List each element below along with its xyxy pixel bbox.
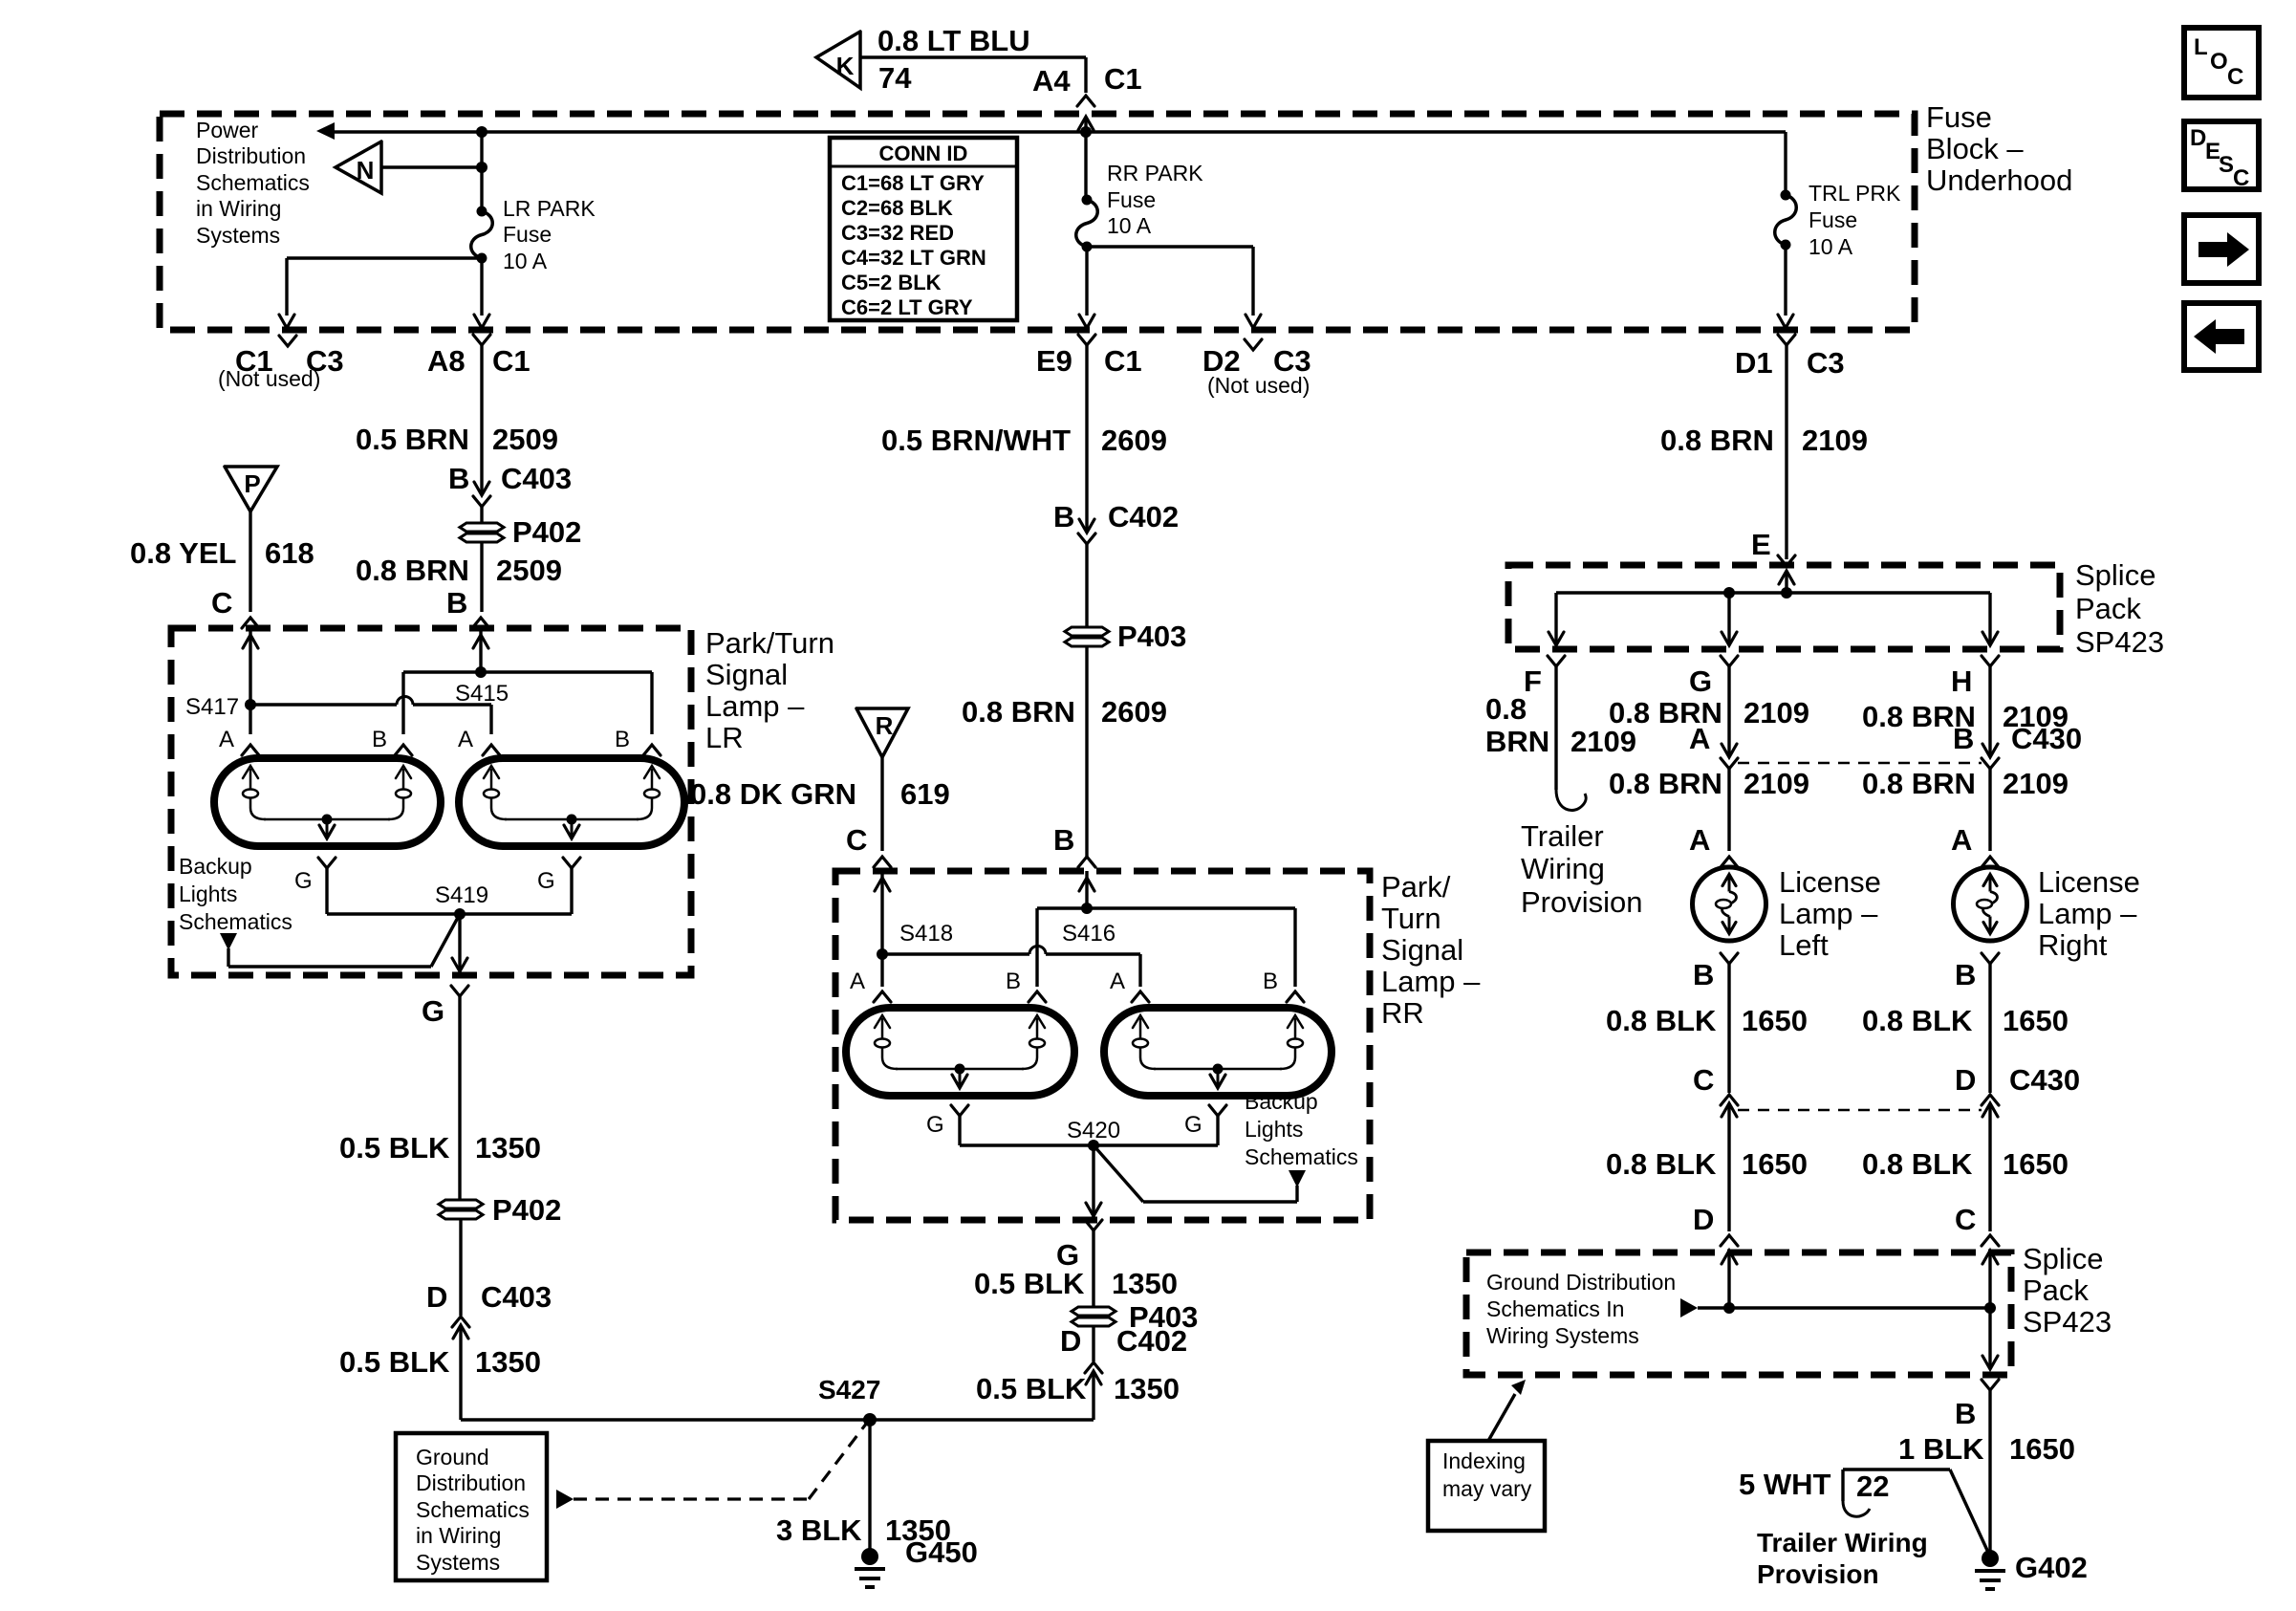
- svg-text:B: B: [1053, 823, 1074, 857]
- wire RR lamp grounds join: [960, 1143, 1218, 1146]
- svg-text:A: A: [219, 727, 234, 752]
- wire 0.8 BRN 2109: [1660, 345, 1868, 559]
- svg-text:C: C: [2227, 64, 2243, 90]
- svg-text:CONN ID: CONN ID: [879, 142, 968, 165]
- wire 0.8 BLK 1650 left: [1606, 964, 1808, 1093]
- svg-text:G: G: [1689, 664, 1712, 698]
- wire P feed into box: [243, 628, 258, 705]
- icon LOC: [2184, 28, 2259, 98]
- connector into LR lamp A: [242, 618, 259, 628]
- wire S420 ground exit: [1086, 1145, 1101, 1220]
- connector F below splice: [1524, 656, 1565, 698]
- wire RR fuse branch to D2 stub: [1087, 247, 1261, 328]
- wire 0.5 BRN 2509: [356, 345, 558, 495]
- label E: [1751, 528, 1771, 561]
- terminal B lamp2: [615, 727, 661, 755]
- svg-text:C1=68 LT GRY: C1=68 LT GRY: [841, 171, 985, 195]
- junction dot rail / A4 input: [1080, 126, 1092, 138]
- label A license right: [1951, 823, 1972, 857]
- power rail: [333, 130, 1786, 133]
- label D: [1693, 1203, 1714, 1236]
- svg-text:in Wiring: in Wiring: [196, 196, 281, 221]
- wire A4 to fuse block: [1077, 57, 1094, 106]
- svg-text:0.5 BLK: 0.5 BLK: [339, 1131, 450, 1165]
- pointer into ground splice: [1680, 1298, 1990, 1317]
- connector into RR lamp C: [874, 857, 891, 867]
- svg-text:C2=68 BLK: C2=68 BLK: [841, 196, 953, 220]
- svg-text:2609: 2609: [1101, 424, 1167, 457]
- svg-text:C430: C430: [2011, 722, 2082, 755]
- svg-text:A: A: [1689, 722, 1710, 755]
- wire P403 to C402: [1060, 1324, 1187, 1361]
- svg-text:G: G: [294, 868, 313, 894]
- lamp RR outer bulb: [846, 1008, 1074, 1096]
- svg-text:Ground: Ground: [416, 1445, 489, 1469]
- label License Lamp - Right: [2038, 865, 2140, 962]
- wire P402 to C403: [426, 1220, 552, 1316]
- svg-text:0.8 YEL: 0.8 YEL: [130, 536, 236, 570]
- svg-text:R: R: [876, 711, 894, 740]
- svg-text:1350: 1350: [475, 1131, 541, 1165]
- label Park/Turn Signal Lamp - RR: [1381, 870, 1481, 1030]
- svg-text:Provision: Provision: [1757, 1559, 1879, 1589]
- label Trailer Wiring Provision bottom: [1757, 1528, 1928, 1589]
- CONN ID table: [830, 138, 1017, 320]
- label Ground Distribution Schematics In Wiring Systems: [1486, 1270, 1676, 1348]
- svg-text:Right: Right: [2038, 928, 2108, 962]
- connector G below RR box: [1056, 1220, 1102, 1272]
- svg-text:C3=32 RED: C3=32 RED: [841, 221, 954, 245]
- inline connector P402: [460, 515, 581, 549]
- wire F trailer provision stub 0.8 BRN 2109: [1485, 666, 1636, 810]
- svg-text:618: 618: [265, 536, 314, 570]
- svg-text:Lamp –: Lamp –: [705, 689, 805, 723]
- svg-text:3 BLK: 3 BLK: [776, 1513, 862, 1547]
- svg-text:C: C: [211, 586, 232, 620]
- wire S419 ground exit: [452, 914, 467, 975]
- junction dot rail / LR fuse: [476, 126, 487, 138]
- wire TRL fuse to D1 output: [1778, 245, 1793, 328]
- indexing may vary box: [1428, 1441, 1545, 1531]
- svg-text:Wiring: Wiring: [1521, 852, 1605, 885]
- connector C1 pin E9: [1036, 335, 1142, 378]
- wire C403 to P402: [480, 507, 483, 522]
- wire N to LR fuse: [381, 162, 487, 173]
- connector arrow R turn feed: [856, 708, 908, 757]
- svg-text:0.8 BLK: 0.8 BLK: [1606, 1147, 1717, 1181]
- svg-text:B: B: [372, 727, 387, 752]
- icon DESC: [2184, 121, 2259, 191]
- svg-text:Schematics: Schematics: [196, 170, 310, 195]
- lamp RR inner bulb: [1104, 1008, 1332, 1096]
- svg-text:A: A: [458, 727, 473, 752]
- svg-text:B: B: [1955, 1397, 1976, 1430]
- connector G below splice: [1689, 656, 1738, 698]
- svg-text:Block –: Block –: [1926, 132, 2024, 165]
- connector C402 pin D: [1085, 1362, 1102, 1384]
- splice pack SP423 dashed box: [1508, 565, 2060, 649]
- svg-text:B: B: [1955, 958, 1976, 991]
- wire C402 to ground bus: [1092, 1371, 1094, 1420]
- wire A to license left: [1609, 767, 1809, 851]
- svg-text:C1: C1: [1104, 62, 1142, 96]
- svg-text:2109: 2109: [1802, 424, 1868, 457]
- wire 1 BLK 1650: [1898, 1390, 2075, 1557]
- svg-text:C1: C1: [492, 344, 531, 378]
- connector C430 pin C: [1693, 1063, 1738, 1117]
- svg-text:0.8 BRN: 0.8 BRN: [1660, 424, 1774, 457]
- connector C430 pin D: [1955, 1063, 2080, 1117]
- svg-text:Systems: Systems: [416, 1550, 500, 1575]
- svg-text:2609: 2609: [1101, 695, 1167, 729]
- svg-text:P: P: [244, 469, 260, 498]
- svg-text:C1: C1: [1104, 344, 1142, 378]
- icon arrow left: [2184, 303, 2259, 370]
- svg-text:TRL PRK: TRL PRK: [1809, 181, 1901, 206]
- svg-text:C: C: [1693, 1063, 1714, 1097]
- svg-text:C5=2 BLK: C5=2 BLK: [841, 271, 942, 294]
- svg-text:Pack: Pack: [2075, 592, 2141, 625]
- connector arrow N: [336, 142, 381, 193]
- svg-text:N: N: [357, 156, 375, 185]
- svg-text:Signal: Signal: [1381, 933, 1463, 967]
- svg-text:LR PARK: LR PARK: [503, 196, 596, 221]
- svg-text:S415: S415: [455, 681, 509, 707]
- svg-text:5 WHT: 5 WHT: [1739, 1468, 1831, 1501]
- wire S418 to RR lamp A1: [880, 954, 883, 987]
- svg-text:(Not used): (Not used): [1207, 373, 1310, 398]
- svg-text:0.8 BLK: 0.8 BLK: [1862, 1147, 1973, 1181]
- junction S420: [1067, 1118, 1120, 1151]
- terminal B RR lamp1: [1006, 969, 1046, 1002]
- svg-text:Indexing: Indexing: [1442, 1448, 1526, 1473]
- svg-text:Lamp –: Lamp –: [1381, 965, 1481, 998]
- pointer indexing to splice box: [1488, 1380, 1526, 1441]
- svg-text:Trailer: Trailer: [1521, 819, 1604, 853]
- svg-text:(Not used): (Not used): [218, 366, 320, 391]
- svg-text:B: B: [446, 586, 467, 620]
- svg-text:H: H: [1951, 664, 1972, 698]
- svg-text:B: B: [1006, 969, 1021, 994]
- svg-text:Schematics In: Schematics In: [1486, 1296, 1624, 1321]
- wire H 0.8 BRN 2109: [1862, 666, 2069, 757]
- svg-text:License: License: [2038, 865, 2140, 899]
- svg-text:LR: LR: [705, 721, 744, 754]
- svg-text:0.8 BLK: 0.8 BLK: [1606, 1004, 1717, 1037]
- label B: [446, 586, 467, 620]
- svg-text:in Wiring: in Wiring: [416, 1523, 501, 1548]
- lamp LR outer bulb: [214, 758, 441, 846]
- svg-text:Lamp –: Lamp –: [1779, 897, 1878, 930]
- junction S416: [1062, 903, 1116, 947]
- svg-text:B: B: [615, 727, 630, 752]
- connector below license left: [1693, 953, 1738, 991]
- svg-text:Fuse: Fuse: [503, 222, 552, 247]
- wire lamp grounds join: [327, 912, 572, 915]
- wire rail to RR fuse: [1084, 132, 1087, 200]
- svg-text:Backup: Backup: [1245, 1089, 1318, 1114]
- svg-text:1350: 1350: [1112, 1267, 1178, 1300]
- wire 0.8 BRN 2509: [356, 543, 562, 612]
- svg-text:G: G: [926, 1112, 944, 1138]
- svg-text:may vary: may vary: [1442, 1476, 1532, 1501]
- svg-text:10 A: 10 A: [1107, 213, 1152, 238]
- wire S416 to RR lamp B terminals: [1037, 908, 1295, 987]
- wire S417 to lamp A1: [249, 705, 251, 734]
- svg-text:License: License: [1779, 865, 1881, 899]
- terminal A RR lamp1: [850, 969, 891, 1002]
- label A license left: [1689, 823, 1710, 857]
- svg-text:D: D: [2190, 125, 2206, 151]
- junction S417: [185, 694, 256, 720]
- svg-text:E9: E9: [1036, 344, 1072, 378]
- label 0.5 BLK 1350 right: [976, 1372, 1180, 1405]
- svg-text:G450: G450: [905, 1535, 978, 1569]
- wire LR fuse branch to C1 stub: [279, 258, 482, 328]
- arrow A4 into fuse block: [1078, 117, 1094, 132]
- svg-text:0.5 BLK: 0.5 BLK: [976, 1372, 1087, 1405]
- label C: [846, 823, 867, 857]
- wire C402 to P403: [1085, 544, 1088, 626]
- svg-text:A: A: [1110, 969, 1125, 994]
- svg-text:SP423: SP423: [2075, 625, 2164, 659]
- terminal G lamp2: [537, 858, 580, 914]
- svg-text:Schematics: Schematics: [1245, 1144, 1358, 1169]
- svg-text:Park/Turn: Park/Turn: [705, 626, 834, 660]
- svg-text:1650: 1650: [1742, 1147, 1808, 1181]
- label Backup Lights Schematics LR: [179, 854, 292, 934]
- svg-text:D1: D1: [1735, 346, 1773, 380]
- connector into ground splice right: [1982, 1235, 1999, 1246]
- terminal G lamp1: [294, 858, 336, 914]
- wire 0.5 BLK 1350 RR: [974, 1230, 1178, 1306]
- label Splice Pack SP423 bottom: [2023, 1242, 2112, 1339]
- connector C3 pin D1: [1735, 335, 1845, 380]
- svg-text:A8: A8: [427, 344, 466, 378]
- svg-text:Power: Power: [196, 118, 259, 142]
- wire S427 to G450: [776, 1420, 951, 1557]
- svg-text:S420: S420: [1067, 1118, 1120, 1143]
- junction S419: [435, 882, 488, 920]
- svg-text:Systems: Systems: [196, 223, 280, 248]
- connector C403 pin D: [452, 1317, 469, 1339]
- svg-text:O: O: [2210, 49, 2228, 75]
- svg-text:1650: 1650: [2003, 1004, 2069, 1037]
- label C1: [1104, 62, 1142, 96]
- svg-text:1350: 1350: [1114, 1372, 1180, 1405]
- wire B feed into box: [473, 628, 488, 672]
- svg-text:Lights: Lights: [179, 882, 237, 906]
- trailer provision bracket 5 WHT 22: [1739, 1468, 1950, 1516]
- connector into license right: [1982, 857, 1999, 867]
- svg-text:K: K: [836, 52, 855, 80]
- dashed connector line C430 bottom: [1738, 1109, 1982, 1112]
- wire LR fuse to A8 output: [474, 258, 489, 328]
- svg-text:Provision: Provision: [1521, 885, 1643, 919]
- svg-text:0.8 BRN: 0.8 BRN: [356, 554, 469, 587]
- svg-text:SP423: SP423: [2023, 1305, 2112, 1339]
- svg-text:BRN: BRN: [1485, 725, 1549, 758]
- wire 0.8 YEL 618: [130, 512, 314, 612]
- svg-text:Schematics: Schematics: [416, 1497, 530, 1522]
- svg-text:Turn: Turn: [1381, 902, 1441, 935]
- svg-text:D: D: [1060, 1324, 1081, 1358]
- wire rail to LR fuse: [480, 132, 483, 211]
- svg-text:E: E: [1751, 528, 1771, 561]
- dashed pointer to S427: [556, 1423, 867, 1509]
- svg-text:0.5 BLK: 0.5 BLK: [974, 1267, 1085, 1300]
- power distribution note: [196, 118, 310, 248]
- svg-text:0.5 BRN/WHT: 0.5 BRN/WHT: [881, 424, 1071, 457]
- svg-text:G402: G402: [2015, 1551, 2088, 1584]
- svg-text:B: B: [1053, 500, 1074, 533]
- ground G402: [1975, 1550, 2088, 1589]
- label C: [1955, 1203, 1976, 1236]
- svg-text:1650: 1650: [1742, 1004, 1808, 1037]
- license lamp right: [1954, 867, 2027, 941]
- label C: [211, 586, 232, 620]
- svg-text:P402: P402: [512, 515, 581, 549]
- svg-text:619: 619: [900, 777, 950, 811]
- svg-text:1650: 1650: [2009, 1432, 2075, 1466]
- svg-text:0.8 BRN: 0.8 BRN: [1609, 767, 1722, 800]
- wire S417 to lamp A2 with hop: [250, 697, 491, 735]
- connector C402 pin B: [1053, 500, 1179, 544]
- connector C1 pin C1 not used: [218, 336, 344, 391]
- svg-text:C402: C402: [1108, 500, 1179, 533]
- connector into license left: [1721, 857, 1738, 867]
- wire bracket to G402: [1950, 1469, 1990, 1557]
- svg-text:Fuse: Fuse: [1809, 207, 1857, 232]
- svg-text:Fuse: Fuse: [1926, 100, 1992, 134]
- splice drop H: [1982, 593, 1998, 645]
- wire S415 to lamp B terminals: [403, 672, 652, 734]
- inline connector P403: [1065, 620, 1186, 653]
- splice bus: [1556, 587, 1990, 599]
- wire E into splice: [1779, 571, 1794, 593]
- svg-text:0.8 BLK: 0.8 BLK: [1862, 1004, 1973, 1037]
- svg-text:Lamp –: Lamp –: [2038, 897, 2137, 930]
- ground splice pack dashed box: [1466, 1252, 2011, 1375]
- connector C430 pin A: [1689, 722, 1738, 769]
- svg-text:Splice: Splice: [2075, 558, 2155, 592]
- inline connector P403 ground: [1072, 1300, 1198, 1334]
- svg-text:L: L: [2194, 34, 2208, 60]
- connector into ground splice left: [1721, 1235, 1738, 1246]
- svg-text:D: D: [1693, 1203, 1714, 1236]
- fuse LR PARK 10A: [471, 207, 493, 264]
- svg-text:2109: 2109: [1744, 696, 1809, 729]
- svg-text:G: G: [537, 868, 555, 894]
- label Park/Turn Signal Lamp - LR: [705, 626, 834, 754]
- inline connector P402 ground: [439, 1193, 561, 1227]
- svg-text:22: 22: [1856, 1469, 1889, 1503]
- svg-text:Lights: Lights: [1245, 1117, 1303, 1142]
- svg-text:Ground Distribution: Ground Distribution: [1486, 1270, 1676, 1295]
- svg-text:Park/: Park/: [1381, 870, 1451, 903]
- svg-text:D: D: [426, 1280, 447, 1314]
- svg-text:A: A: [850, 969, 865, 994]
- park/turn signal lamp RR dashed box: [835, 871, 1370, 1220]
- connector into RR lamp: [1078, 857, 1095, 867]
- svg-text:RR PARK: RR PARK: [1107, 161, 1203, 185]
- svg-text:1 BLK: 1 BLK: [1898, 1432, 1984, 1466]
- wire left into ground splice: [1722, 1251, 1737, 1314]
- junction S415: [455, 666, 509, 707]
- label TRL PRK Fuse 10 A: [1809, 181, 1901, 259]
- label Fuse Block - Underhood: [1926, 100, 2072, 197]
- svg-text:10 A: 10 A: [503, 249, 548, 273]
- svg-text:Schematics: Schematics: [179, 909, 292, 934]
- svg-text:B: B: [1693, 958, 1714, 991]
- splice drop G: [1722, 593, 1737, 645]
- terminal A RR lamp2: [1110, 969, 1149, 1002]
- connector arrow K to other sheet, circuit 74 0.8 LT BLU: [816, 24, 1086, 95]
- svg-text:B: B: [1263, 969, 1278, 994]
- wire RR fuse to E9 output: [1079, 247, 1094, 328]
- wire B to license right: [1862, 767, 2069, 851]
- label Trailer Wiring Provision F: [1521, 819, 1643, 919]
- connector arrow P turn feed: [225, 467, 277, 512]
- svg-text:C403: C403: [481, 1280, 552, 1314]
- wire B feed into RR box: [1079, 871, 1094, 908]
- svg-text:G: G: [422, 994, 444, 1028]
- junction S418: [877, 921, 953, 960]
- connector H below splice: [1951, 656, 1999, 698]
- svg-text:Distribution: Distribution: [196, 143, 306, 168]
- connector B below ground splice: [1955, 1380, 1999, 1430]
- svg-text:Signal: Signal: [705, 658, 788, 691]
- terminal B lamp1: [372, 727, 412, 755]
- svg-text:1350: 1350: [475, 1345, 541, 1379]
- splice drop F: [1549, 593, 1564, 645]
- svg-text:Backup: Backup: [179, 854, 252, 879]
- wire 0.8 DK GRN 619: [690, 757, 950, 851]
- svg-text:S419: S419: [435, 882, 488, 908]
- svg-text:Wiring Systems: Wiring Systems: [1486, 1323, 1639, 1348]
- label A4: [1032, 64, 1071, 98]
- wire right into ground splice: [1982, 1251, 1998, 1314]
- pointer backup lights to S419: [220, 914, 460, 967]
- svg-text:74: 74: [878, 61, 912, 95]
- wire 0.8 BLK 1650 right: [1862, 964, 2069, 1093]
- svg-text:C402: C402: [1116, 1324, 1187, 1358]
- terminal A lamp1: [219, 727, 259, 755]
- label RR PARK Fuse 10 A: [1107, 161, 1203, 238]
- terminal G RR lamp2: [1184, 1105, 1226, 1145]
- ground G450: [855, 1535, 978, 1587]
- svg-text:Left: Left: [1779, 928, 1829, 962]
- power rail arrow to power distribution: [316, 122, 335, 140]
- svg-text:A4: A4: [1032, 64, 1071, 98]
- svg-text:0.8: 0.8: [1485, 692, 1527, 726]
- connector G below LR box: [422, 986, 468, 1028]
- terminal B RR lamp2: [1263, 969, 1304, 1002]
- park/turn signal lamp LR dashed box: [171, 628, 691, 975]
- svg-text:2109: 2109: [1744, 767, 1809, 800]
- wire 0.5 BRN/WHT 2609: [881, 345, 1167, 533]
- junction S427: [818, 1375, 880, 1426]
- svg-text:0.8 BRN: 0.8 BRN: [1862, 767, 1976, 800]
- svg-text:D: D: [1955, 1063, 1976, 1097]
- ground distribution schematics box: [396, 1433, 547, 1580]
- pointer backup lights to S420: [1094, 1145, 1306, 1202]
- connector C403 pin B: [448, 462, 572, 507]
- wire 0.8 BRN 2609: [962, 647, 1167, 857]
- svg-text:10 A: 10 A: [1809, 234, 1853, 259]
- connector C430 pin B: [1953, 722, 2082, 769]
- wire S418 to RR lamp A2 with hop: [882, 947, 1140, 988]
